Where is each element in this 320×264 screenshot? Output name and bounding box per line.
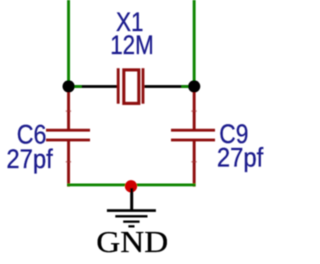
svg-text:27pf: 27pf <box>217 143 264 172</box>
svg-text:GND: GND <box>96 224 168 259</box>
svg-text:12M: 12M <box>110 32 154 61</box>
svg-text:27pf: 27pf <box>6 145 53 174</box>
